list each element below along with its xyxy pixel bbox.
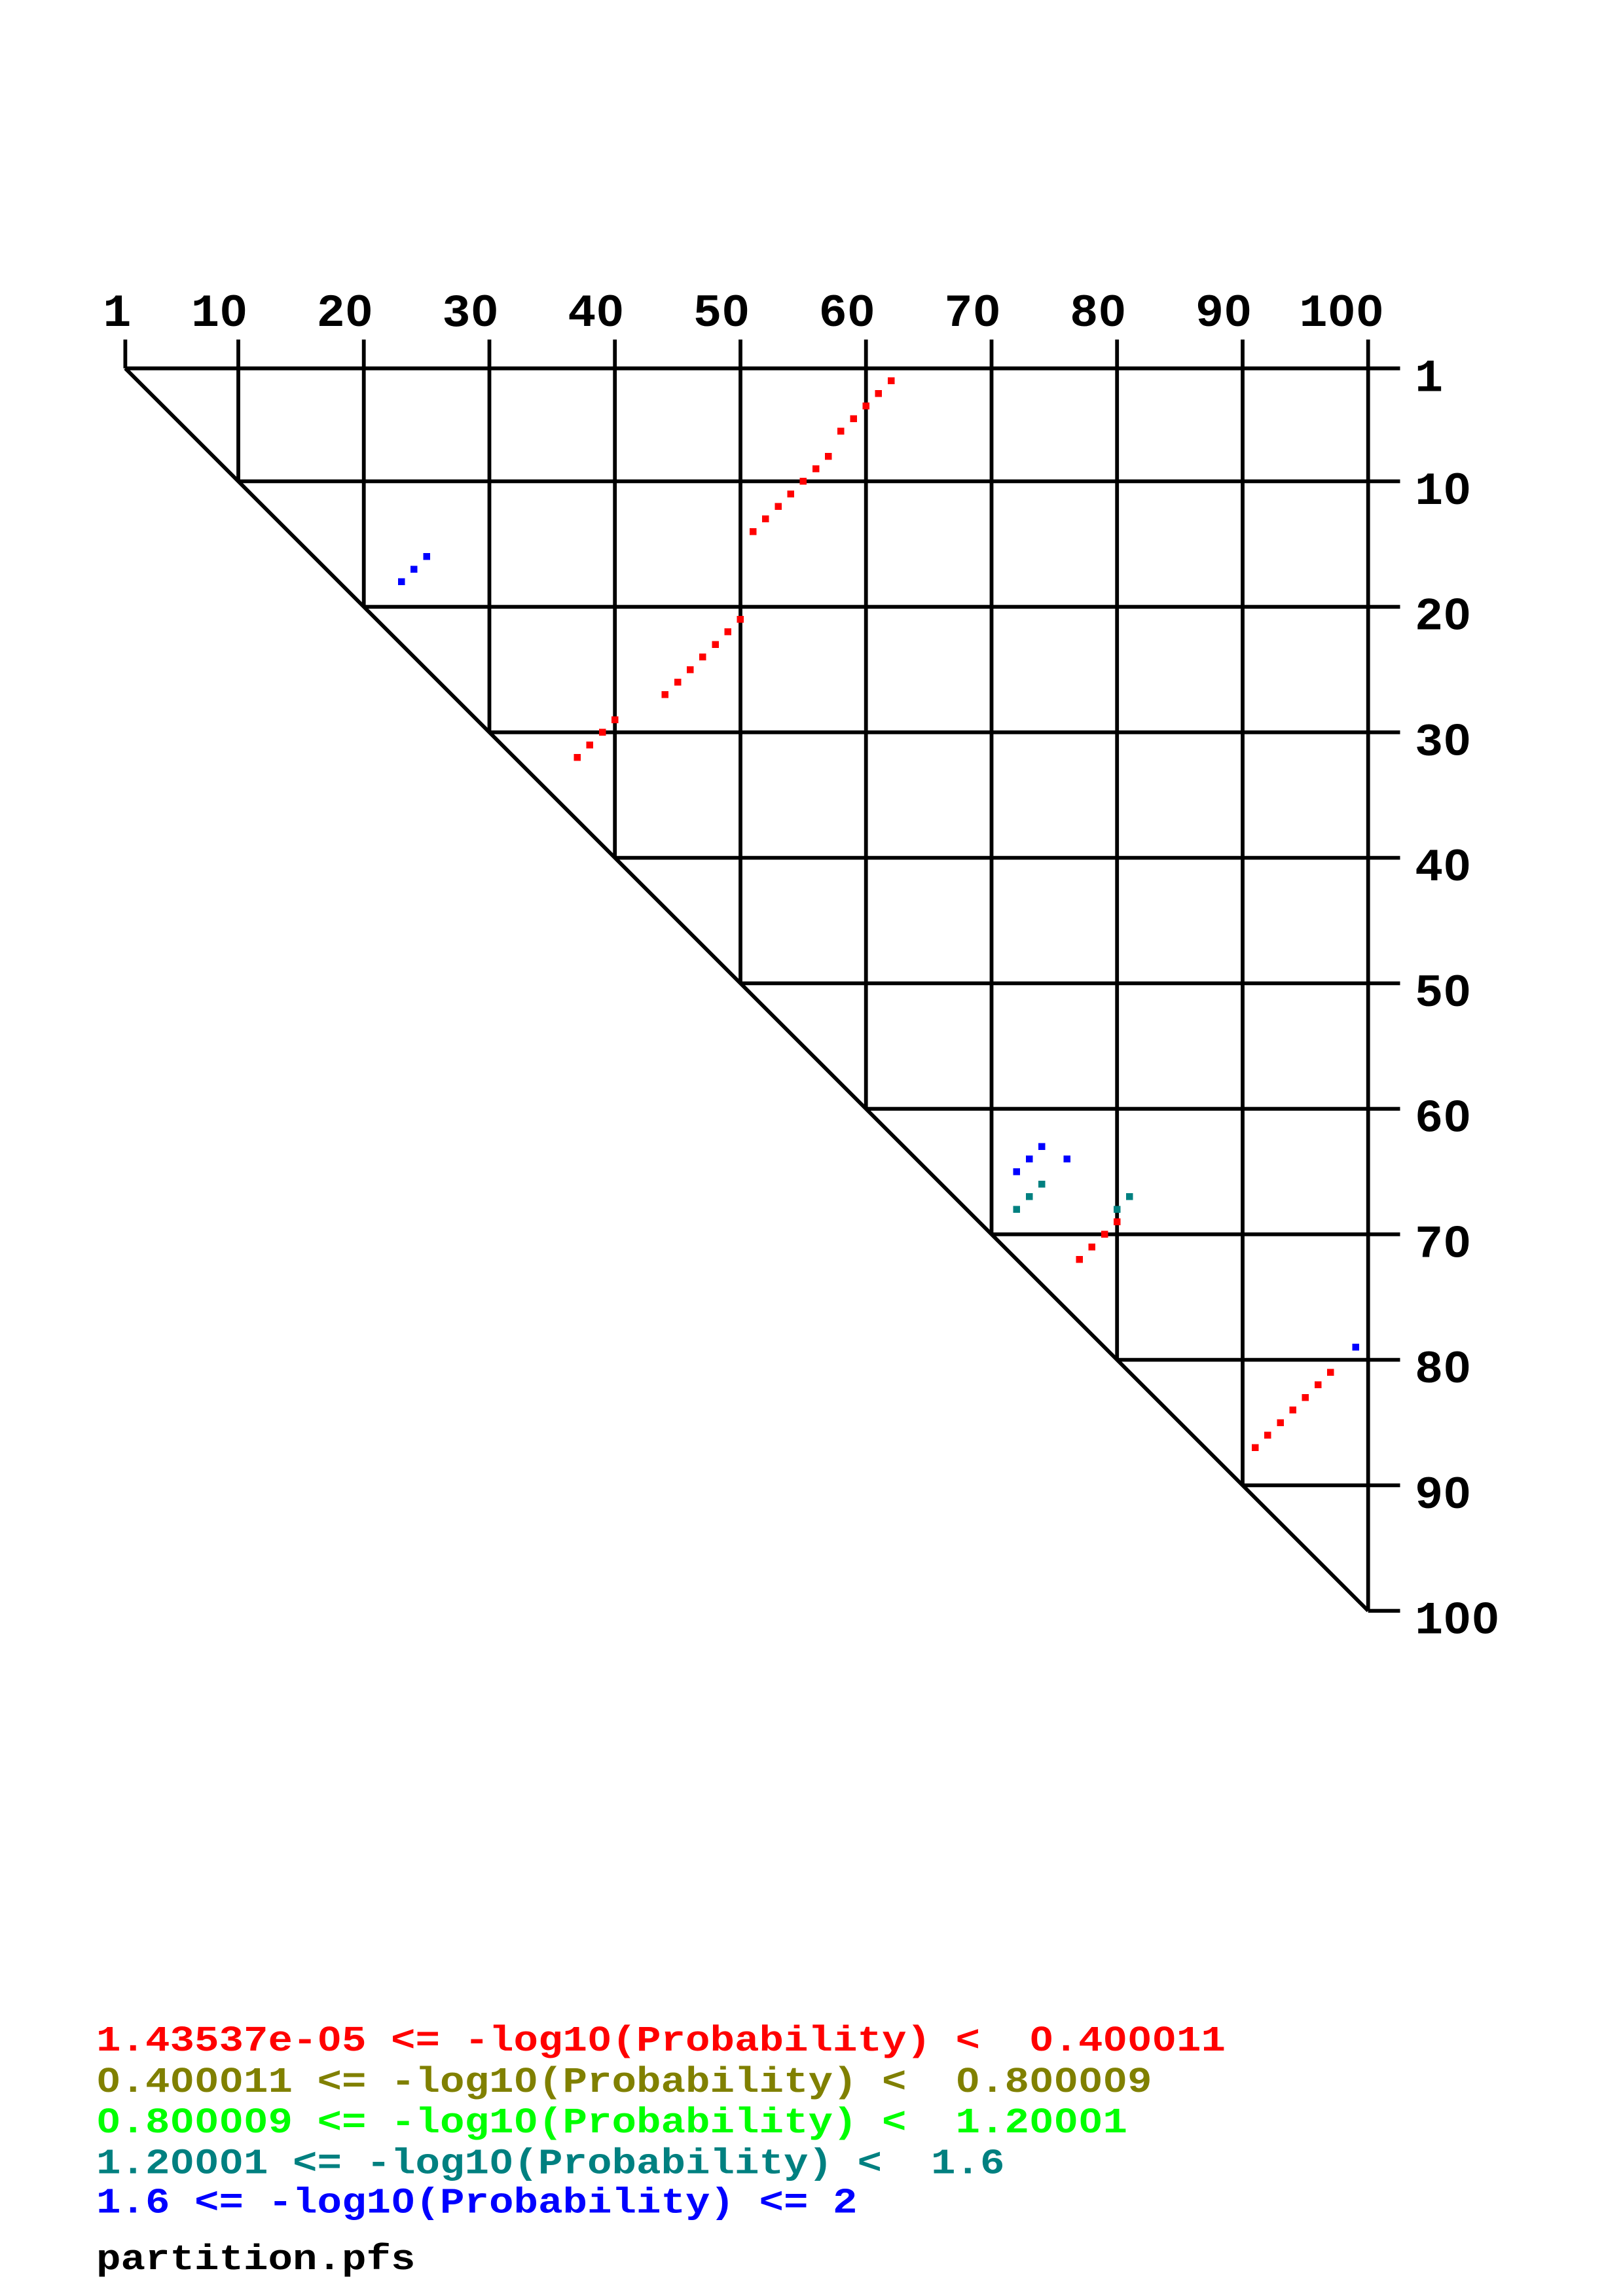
dot i=11 j=54: [787, 490, 794, 497]
zero glyph counter masks: [105, 307, 1489, 2204]
dot i=21 j=50: [737, 616, 744, 623]
dot i=3 j=61: [875, 390, 883, 397]
dot i=71 j=78: [1089, 1244, 1096, 1251]
svg-text:90: 90: [1415, 1470, 1471, 1522]
vertical grid line col 20: [362, 368, 366, 607]
dot i=67 j=73: [1026, 1193, 1033, 1200]
dot i=84 j=94: [1289, 1407, 1296, 1414]
top border line row 1 with right tick: [125, 367, 1400, 370]
dot i=29 j=40: [611, 716, 619, 723]
horizontal grid line row 40 with right tick: [615, 856, 1400, 860]
top tick col 10: [236, 340, 240, 368]
horizontal grid line row 60 with right tick: [866, 1107, 1400, 1111]
dot i=72 j=77: [1076, 1256, 1083, 1263]
svg-text:0.800009 <= -log10(Probability: 0.800009 <= -log10(Probability) < 1.2000…: [96, 2102, 1127, 2144]
top tick col 70: [990, 340, 994, 368]
top tick col 20: [362, 340, 366, 368]
dot i=68 j=80: [1114, 1206, 1121, 1213]
dot i=2 j=62: [888, 378, 895, 385]
top tick col 80: [1115, 340, 1119, 368]
dot i=68 j=72: [1013, 1206, 1021, 1213]
svg-text:40: 40: [1415, 843, 1471, 895]
svg-text:1.6 <= -log10(Probability) <=: 1.6 <= -log10(Probability) <= 2: [96, 2183, 857, 2224]
svg-text:50: 50: [693, 289, 750, 340]
dot i=22 j=49: [725, 628, 732, 636]
horizontal grid line row 70 with right tick: [992, 1232, 1400, 1236]
vertical grid line col 10: [236, 368, 240, 482]
top tick col 50: [739, 340, 742, 368]
svg-text:20: 20: [317, 289, 373, 340]
dot i=64 j=73: [1026, 1156, 1033, 1163]
vertical grid line col 40: [613, 368, 617, 858]
top tick col 30: [488, 340, 492, 368]
dot i=5 j=59: [850, 415, 857, 422]
horizontal grid line row 50 with right tick: [740, 982, 1400, 986]
right border line col 100: [1366, 368, 1370, 1611]
svg-text:70: 70: [1415, 1219, 1471, 1271]
dot i=25 j=46: [687, 666, 694, 673]
svg-text:80: 80: [1415, 1345, 1471, 1397]
vertical grid line col 50: [739, 368, 742, 984]
svg-text:80: 80: [1070, 289, 1126, 340]
dot i=31 j=38: [587, 742, 594, 749]
top tick col 1: [123, 340, 127, 368]
svg-text:10: 10: [1415, 466, 1471, 518]
svg-text:30: 30: [1415, 717, 1471, 769]
top tick col 60: [864, 340, 868, 368]
dot i=30 j=39: [599, 729, 606, 736]
horizontal grid line row 90 with right tick: [1243, 1483, 1400, 1487]
horizontal grid line row 80 with right tick: [1117, 1358, 1400, 1362]
dot i=13 j=52: [762, 516, 769, 523]
dot i=66 j=74: [1038, 1181, 1046, 1188]
dot i=64 j=76: [1063, 1156, 1070, 1163]
dot i=18 j=23: [398, 579, 405, 586]
dot i=8 j=57: [825, 453, 832, 460]
top tick col 90: [1241, 340, 1245, 368]
right tick row 100: [1368, 1609, 1400, 1613]
vertical grid line col 80: [1115, 368, 1119, 1360]
dot i=86 j=92: [1264, 1431, 1271, 1439]
dot i=69 j=80: [1114, 1218, 1121, 1225]
dot i=85 j=93: [1277, 1419, 1284, 1426]
vertical grid line col 90: [1241, 368, 1245, 1486]
svg-text:60: 60: [1415, 1094, 1471, 1145]
svg-text:40: 40: [568, 289, 624, 340]
vertical grid line col 30: [488, 368, 492, 732]
dot i=63 j=74: [1038, 1143, 1046, 1150]
svg-text:60: 60: [819, 289, 875, 340]
dot i=32 j=37: [574, 754, 581, 761]
svg-text:10: 10: [191, 289, 247, 340]
dot i=67 j=81: [1126, 1193, 1133, 1200]
dot i=4 j=60: [862, 403, 869, 410]
dot i=10 j=55: [800, 478, 807, 485]
dot i=26 j=45: [674, 679, 682, 686]
dot i=65 j=72: [1013, 1168, 1021, 1175]
vertical grid line col 70: [990, 368, 994, 1234]
diagonal boundary: [125, 368, 1368, 1611]
horizontal grid line row 30 with right tick: [490, 730, 1400, 734]
svg-text:1.43537e-05 <= -log10(Probabil: 1.43537e-05 <= -log10(Probability) < 0.4…: [96, 2020, 1226, 2062]
dot i=24 j=47: [699, 654, 706, 661]
top tick col 100: [1366, 340, 1370, 368]
dot i=83 j=95: [1302, 1394, 1309, 1401]
svg-text:20: 20: [1415, 592, 1471, 643]
dot i=79 j=99: [1352, 1344, 1359, 1351]
dot i=27 j=44: [662, 691, 669, 698]
dot i=6 j=58: [837, 427, 845, 435]
svg-text:50: 50: [1415, 968, 1471, 1020]
dot i=70 j=79: [1101, 1231, 1108, 1238]
dot i=17 j=24: [410, 565, 418, 573]
horizontal grid line row 10 with right tick: [238, 480, 1400, 484]
dot i=82 j=96: [1315, 1382, 1322, 1389]
svg-text:1: 1: [103, 289, 131, 340]
top tick col 40: [613, 340, 617, 368]
svg-text:partition.pfs: partition.pfs: [96, 2239, 416, 2280]
dot i=81 j=97: [1327, 1369, 1334, 1376]
horizontal grid line row 20 with right tick: [364, 605, 1400, 609]
svg-text:90: 90: [1195, 289, 1252, 340]
dot i=16 j=25: [423, 553, 430, 560]
dot i=9 j=56: [812, 465, 820, 473]
svg-text:70: 70: [944, 289, 1000, 340]
svg-text:30: 30: [442, 289, 498, 340]
dot i=14 j=51: [750, 528, 757, 535]
dot i=87 j=91: [1252, 1444, 1259, 1452]
dot i=23 j=48: [712, 641, 719, 648]
svg-text:1: 1: [1415, 353, 1443, 405]
dot i=12 j=53: [775, 503, 782, 510]
svg-text:0.400011 <= -log10(Probability: 0.400011 <= -log10(Probability) < 0.8000…: [96, 2062, 1152, 2103]
vertical grid line col 60: [864, 368, 868, 1109]
